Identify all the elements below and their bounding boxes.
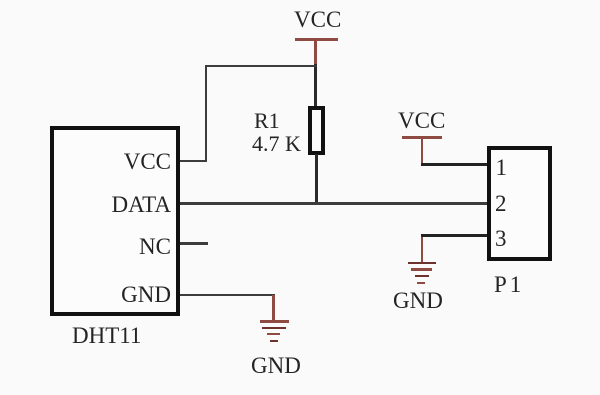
wire DHT11 VCC pin horizontal [177,160,207,163]
wire vertical riser [205,65,208,162]
connector P1 refdes [494,273,524,296]
wire DATA net [177,202,487,205]
resistor R1 value 4.7 K [252,133,301,155]
resistor R1 body [308,106,325,155]
ground symbol (right) bar4 [417,282,425,285]
ground symbol (bottom) bar4 [270,340,278,343]
pin label VCC [124,150,171,173]
pin number 2 [495,192,507,215]
wire GND drop right (red) [421,237,424,263]
pin label GND [121,283,171,306]
ground symbol (right) bar2 [411,268,433,271]
ground symbol (bottom) bar1 [260,320,290,323]
wire NC stub [177,242,208,245]
component DHT11 body [50,126,180,316]
power symbol VCC (right) bar [402,136,443,139]
wire VCC to P1 pin1 [421,163,488,166]
ground symbol (right) bar1 [408,262,437,265]
wire VCC stem to resistor [314,64,317,106]
ground symbol (right) label GND [393,289,443,312]
wire horizontal to VCC node [205,65,317,68]
pin number 1 [496,156,508,179]
wire resistor bottom lead [315,154,318,204]
pin number 3 [495,227,507,250]
ground symbol (bottom) bar3 [267,333,281,335]
power symbol VCC (right) stem [421,138,424,165]
pin label NC [139,235,171,258]
wire DHT11 GND pin horizontal [177,294,275,297]
power symbol VCC (top) label [294,8,341,31]
ground symbol (right) bar3 [415,275,429,277]
power symbol VCC (top) bar [295,38,338,41]
ground symbol (bottom) bar2 [262,327,286,330]
power symbol VCC (top) stem [314,40,317,66]
wire P1 pin3 horizontal [421,234,488,237]
ground symbol (bottom) label GND [251,354,301,377]
wire GND drop (red) [272,295,275,321]
power symbol VCC (right) label [398,109,445,132]
pin label DATA [112,193,172,216]
component DHT11 refdes [72,324,141,347]
connector P1 body [487,146,552,262]
resistor R1 label [254,110,280,132]
